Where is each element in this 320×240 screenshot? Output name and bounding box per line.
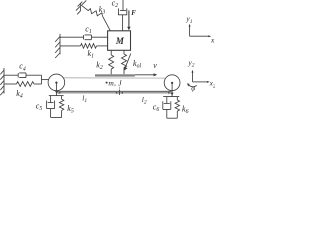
- svg-text:kol: kol: [133, 59, 141, 70]
- axle line right pulley down to bracket: [171, 83, 173, 97]
- junction bar joining c4/k4 and link to pulley: [42, 75, 49, 84]
- down arrowhead under left pulley: [55, 91, 58, 94]
- spring k1 (horizontal wall to mass): [60, 44, 108, 49]
- centre of mass dot: [106, 82, 108, 84]
- svg-text:φ: φ: [191, 85, 195, 93]
- dim arrow left (points left): [57, 92, 61, 94]
- damper c4 (horizontal, top branch): [4, 73, 42, 78]
- dim arrow right (points right): [168, 92, 172, 94]
- belt velocity arrow v: [135, 73, 157, 76]
- beam bottom line: [57, 90, 172, 92]
- centre tick: [118, 90, 120, 95]
- spring k5 (vertical): [59, 96, 63, 118]
- dim arrows centre (tip to tip): [116, 92, 119, 94]
- contact bar (gray pad under k2 and k_ol): [95, 74, 135, 76]
- coordinate frame 1 (y1 up, x1 right): [189, 24, 212, 38]
- axle line left pulley down to bracket: [55, 83, 57, 96]
- svg-text:c1: c1: [85, 24, 92, 35]
- svg-text:k2: k2: [96, 60, 103, 71]
- svg-text:x1: x1: [210, 36, 215, 47]
- svg-text:k5: k5: [67, 104, 74, 115]
- damper c6 (vertical): [163, 97, 171, 119]
- damper c1 (horizontal wall to mass): [60, 35, 108, 40]
- svg-text:c4: c4: [19, 62, 26, 73]
- wall (bottom-left, hatched): [0, 68, 4, 95]
- dimension line l1/l2: [57, 92, 172, 94]
- spring k2 (vertical, mass to contact bar): [109, 50, 114, 74]
- damper c2 (vertical, from top edge to mass): [118, 0, 126, 31]
- svg-text:c2: c2: [112, 0, 119, 9]
- svg-text:k4: k4: [16, 89, 23, 100]
- pulley left: [48, 74, 65, 91]
- svg-text:x2: x2: [209, 79, 215, 90]
- svg-text:y2: y2: [187, 58, 194, 69]
- svg-text:k1: k1: [88, 49, 95, 60]
- bottom link c5/k5: [51, 117, 62, 119]
- down arrowhead under right pulley: [171, 93, 174, 96]
- coordinate frame 2 (y2 up, x2 right, phi): [187, 70, 210, 87]
- svg-text:M: M: [115, 36, 125, 46]
- spring k4 (horizontal, bottom branch): [4, 82, 42, 87]
- svg-text:l1: l1: [82, 93, 87, 104]
- grey guide line at centre: [118, 87, 120, 90]
- svg-text:k6: k6: [182, 104, 189, 115]
- anchor wall for k3 (top-left, inclined hatched support): [76, 0, 86, 14]
- bracket under left pulley: [49, 95, 64, 97]
- spring k6 (vertical): [175, 97, 179, 119]
- bracket under right pulley: [163, 96, 179, 98]
- mass M block: [108, 31, 131, 51]
- svg-text:y1: y1: [185, 14, 192, 25]
- spring k3 (diagonal): [81, 5, 103, 16]
- svg-text:m, J: m, J: [108, 79, 122, 88]
- svg-text:F: F: [131, 10, 136, 17]
- svg-text:l2: l2: [142, 95, 147, 106]
- svg-text:v: v: [153, 61, 157, 70]
- svg-text:c5: c5: [36, 102, 43, 113]
- wire k3 to mass: [103, 16, 111, 30]
- spring k_ol (vertical with arrow = variable): [122, 50, 131, 74]
- bottom link c6/k6: [167, 117, 178, 119]
- wall (left middle, hatched): [55, 34, 60, 58]
- svg-text:c6: c6: [153, 102, 160, 113]
- belt top line: [63, 77, 165, 79]
- force F arrow: [127, 10, 130, 30]
- pulley right: [164, 75, 180, 91]
- damper c5 (vertical): [47, 96, 55, 118]
